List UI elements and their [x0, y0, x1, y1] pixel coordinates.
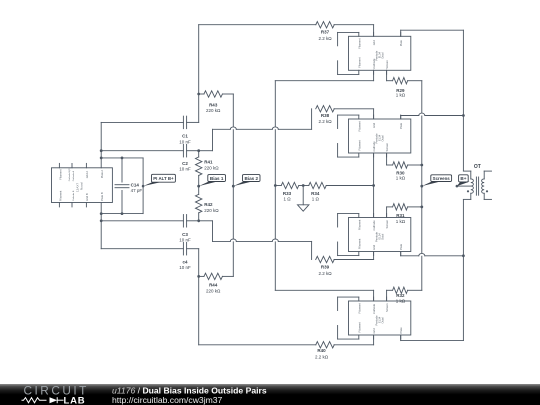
capacitor C1 10 nF — [179, 116, 191, 144]
flag Screens — [421, 175, 452, 188]
wire B+ center tap — [457, 185, 471, 187]
wire plate4 — [401, 335, 464, 341]
wire Bias 2 rail — [232, 94, 235, 276]
wire plate2 — [401, 116, 464, 120]
wire node A riser — [197, 25, 200, 123]
wire C3 to node — [187, 220, 199, 222]
capacitor C2 10 nF — [179, 144, 191, 171]
node Bias 1 junction — [197, 185, 200, 188]
wire outside cathode rail — [274, 81, 277, 291]
resistor R42 220 k — [196, 186, 220, 221]
filament bracket V4 — [338, 214, 359, 256]
resistor R31 1 k — [387, 204, 422, 224]
resistor R30 1 k — [387, 153, 422, 180]
flag Bias 1 — [197, 175, 225, 188]
ground — [298, 186, 309, 212]
resistor R33 1 ohm — [275, 182, 303, 201]
wire C14 top feed — [101, 157, 143, 160]
tube V3 pentode EL34 (upper inside) — [349, 115, 411, 157]
wire top rail — [199, 24, 316, 26]
tube V5 pentode EL34 (bottom outside) — [349, 297, 411, 339]
tube V4 pentode EL34 (lower inside) — [349, 214, 411, 256]
wire inside cathode rail — [372, 153, 375, 218]
wire plate rail top — [462, 30, 465, 171]
wire node D riser — [197, 249, 200, 345]
tube V2 pentode EL34 (top outside) — [349, 32, 411, 74]
capacitor C3 10 nF — [179, 215, 191, 243]
wire cathode tube1 — [275, 70, 373, 80]
wire C2 feed — [101, 150, 183, 152]
transformer OT — [463, 164, 491, 199]
resistor R41 220 k — [196, 151, 220, 186]
wire grid4 rise — [373, 335, 375, 345]
wire plate3 — [401, 252, 464, 256]
resistor R39 2.2 k — [316, 252, 374, 277]
wire cathode tube4 — [275, 290, 373, 301]
footer bar — [0, 384, 540, 405]
resistor R43 220 k — [199, 91, 234, 113]
resistor R37 2.2 k — [316, 22, 374, 42]
CircuitLab logo — [22, 384, 89, 405]
resistor R29 1 k — [387, 70, 422, 97]
svg-text:http://circuitlab.com/cw3jm37: http://circuitlab.com/cw3jm37 — [112, 395, 223, 405]
resistor R40 2.2 k — [315, 342, 374, 360]
wire hops — [230, 113, 424, 256]
footer title text — [112, 386, 267, 405]
wire C1 feed — [101, 121, 183, 123]
wire plate A riser — [100, 122, 103, 167]
filament bracket V5 — [338, 297, 359, 339]
svg-text:LAB: LAB — [64, 396, 86, 405]
capacitor C14 47 pF — [115, 158, 142, 214]
flag Bias 2 — [232, 175, 260, 188]
filament bracket V2 — [338, 32, 359, 74]
wire PI ALT B+ stub — [142, 158, 144, 214]
wire plate rail bottom — [462, 199, 465, 340]
wire c4 feed — [101, 248, 183, 250]
wire bottom rail — [199, 344, 316, 346]
wire c4 to node — [187, 248, 199, 250]
wire grid2 jog — [199, 109, 312, 151]
wire plate B riser — [100, 203, 103, 249]
wire plate1 — [401, 30, 464, 36]
wire C1 to node — [187, 121, 199, 123]
resistor R32 1 k — [387, 287, 422, 304]
wire C3 feed — [101, 220, 183, 222]
node C junction — [197, 219, 200, 222]
flag B+ — [456, 175, 470, 188]
resistor R38 2.2 k — [316, 106, 374, 124]
filament bracket V3 — [338, 115, 359, 157]
capacitor c4 10 nF — [179, 242, 191, 270]
wire grid3 jog — [199, 221, 312, 260]
flag PI ALT B+ — [142, 174, 176, 187]
wire screens rail — [420, 81, 423, 291]
wire C2 to node — [187, 150, 199, 152]
tube V1 input dual triode 12AX7 — [52, 163, 113, 207]
resistor R44 220 k — [199, 273, 234, 293]
resistor R34 1 ohm — [303, 182, 373, 201]
wire grid1 drop — [373, 25, 375, 37]
node B junction — [197, 149, 200, 152]
node cathode sense junction — [302, 184, 305, 187]
wire C14 bottom return — [101, 212, 143, 215]
